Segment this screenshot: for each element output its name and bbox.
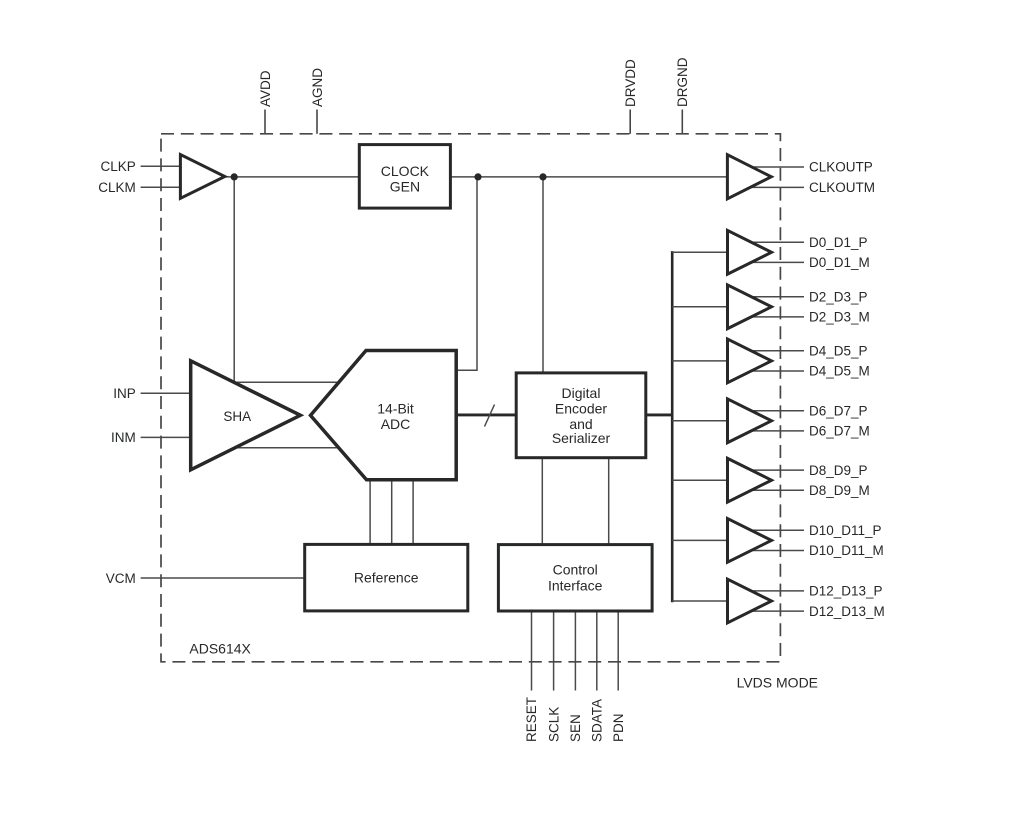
wire encoder to control 2 <box>608 458 610 545</box>
wire D0_D1_M <box>746 261 804 263</box>
svg-text:D6_D7_M: D6_D7_M <box>809 424 870 439</box>
wire CLKOUTP <box>746 166 804 168</box>
svg-text:ADC: ADC <box>381 416 411 432</box>
svg-text:LVDS MODE: LVDS MODE <box>737 675 818 691</box>
wire clock down to ADC <box>456 177 477 370</box>
clock input buffer <box>180 155 224 199</box>
svg-text:Control: Control <box>553 562 598 578</box>
svg-text:AVDD: AVDD <box>258 70 273 107</box>
Control Interface box <box>498 545 652 611</box>
svg-text:D2_D3_M: D2_D3_M <box>809 310 870 325</box>
svg-text:Serializer: Serializer <box>552 430 611 446</box>
svg-text:SCLK: SCLK <box>546 707 561 742</box>
svg-text:DRVDD: DRVDD <box>623 59 638 107</box>
wire D6_D7_P <box>746 410 804 412</box>
wire SHA to ADC upper <box>235 381 341 383</box>
wire bus stub D2_D3 <box>672 306 726 308</box>
junction dot clock to encoder <box>539 173 546 180</box>
svg-text:SEN: SEN <box>568 714 583 742</box>
svg-text:D4_D5_P: D4_D5_P <box>809 344 868 359</box>
LVDS buffer D2_D3 <box>728 285 772 329</box>
wire clock down to SHA <box>233 177 235 382</box>
wire SCLK pin <box>553 611 555 691</box>
wire encoder to LVDS bus <box>646 413 674 416</box>
wire D6_D7_M <box>746 430 804 432</box>
svg-text:SHA: SHA <box>223 409 251 424</box>
svg-text:CLOCK: CLOCK <box>381 163 430 179</box>
svg-text:D2_D3_P: D2_D3_P <box>809 289 868 304</box>
wire D10_D11_M <box>746 550 804 552</box>
svg-text:SDATA: SDATA <box>590 699 605 742</box>
svg-text:ADS614X: ADS614X <box>189 640 251 656</box>
svg-text:D8_D9_P: D8_D9_P <box>809 463 868 478</box>
svg-text:CLKM: CLKM <box>98 180 136 195</box>
wire D2_D3_M <box>746 316 804 318</box>
wire bus stub D6_D7 <box>672 420 726 422</box>
LVDS buffer D0_D1 <box>728 230 772 274</box>
svg-text:D12_D13_P: D12_D13_P <box>809 584 883 599</box>
svg-text:D0_D1_P: D0_D1_P <box>809 235 868 250</box>
wire D8_D9_P <box>746 469 804 471</box>
wire CLKP input <box>141 165 182 167</box>
wire VCM to Reference <box>141 577 305 579</box>
wire D4_D5_M <box>746 370 804 372</box>
wire CLKOUTM <box>746 186 804 188</box>
wire clock buffer to CLOCK GEN <box>225 176 359 178</box>
wire CLOCK GEN to output buffer <box>450 176 726 178</box>
AVDD supply stub <box>264 110 266 134</box>
wire ADC to Reference 1 <box>369 480 371 545</box>
svg-text:PDN: PDN <box>611 713 626 742</box>
LVDS bus vertical <box>671 251 674 602</box>
Digital Encoder and Serializer box <box>516 373 646 458</box>
svg-text:VCM: VCM <box>106 571 136 586</box>
junction dot clock buffer output <box>231 173 238 180</box>
wire D4_D5_P <box>746 350 804 352</box>
AGND supply stub <box>316 110 318 134</box>
LVDS buffer D8_D9 <box>728 458 772 502</box>
wire D12_D13_M <box>746 610 804 612</box>
14-bit ADC block <box>311 351 457 480</box>
svg-text:RESET: RESET <box>524 697 539 742</box>
svg-text:GEN: GEN <box>390 178 420 194</box>
wire RESET pin <box>531 611 533 691</box>
svg-text:D10_D11_M: D10_D11_M <box>809 543 884 558</box>
wire SHA to ADC lower <box>235 447 341 449</box>
LVDS buffer D12_D13 <box>728 579 772 623</box>
svg-text:INM: INM <box>111 430 136 445</box>
svg-text:D0_D1_M: D0_D1_M <box>809 255 870 270</box>
wire PDN pin <box>617 611 619 691</box>
wire CLKM input <box>141 186 182 188</box>
svg-text:Digital: Digital <box>562 385 601 401</box>
SHA amplifier <box>191 361 301 470</box>
svg-text:D10_D11_P: D10_D11_P <box>809 523 882 538</box>
svg-text:D6_D7_P: D6_D7_P <box>809 403 868 418</box>
LVDS buffer D6_D7 <box>728 399 772 443</box>
svg-text:Interface: Interface <box>548 578 603 594</box>
svg-text:DRGND: DRGND <box>675 57 690 107</box>
svg-text:CLKOUTM: CLKOUTM <box>809 180 875 195</box>
svg-text:AGND: AGND <box>310 68 325 107</box>
wire ADC to Reference 3 <box>412 480 414 545</box>
Reference box <box>305 544 468 611</box>
svg-text:D12_D13_M: D12_D13_M <box>809 604 885 619</box>
wire D10_D11_P <box>746 529 804 531</box>
svg-text:14-Bit: 14-Bit <box>377 400 414 416</box>
wire SEN pin <box>574 611 576 691</box>
svg-text:D4_D5_M: D4_D5_M <box>809 364 870 379</box>
LVDS buffer D10_D11 <box>728 519 772 563</box>
wire D8_D9_M <box>746 489 804 491</box>
svg-text:Encoder: Encoder <box>555 401 607 417</box>
DRGND supply stub <box>681 110 683 134</box>
svg-text:CLKP: CLKP <box>101 159 136 174</box>
LVDS buffer D4_D5 <box>728 339 772 383</box>
wire ADC to encoder bus <box>455 413 516 416</box>
wire SDATA pin <box>596 611 598 691</box>
wire D0_D1_P <box>746 241 804 243</box>
wire INP input <box>141 392 192 394</box>
CLOCK GEN box <box>359 145 450 209</box>
bus width slash <box>485 405 495 427</box>
DRVDD supply stub <box>629 110 631 134</box>
svg-text:INP: INP <box>113 386 136 401</box>
wire bus stub D10_D11 <box>672 539 726 541</box>
svg-text:CLKOUTP: CLKOUTP <box>809 160 873 175</box>
svg-text:D8_D9_M: D8_D9_M <box>809 483 870 498</box>
wire bus stub D4_D5 <box>672 360 726 362</box>
junction dot clock to ADC <box>474 173 481 180</box>
wire clock down to encoder <box>542 177 544 373</box>
dashed chip boundary <box>161 134 780 662</box>
CLKOUT buffer <box>727 155 771 199</box>
wire bus stub D12_D13 <box>672 600 726 602</box>
wire ADC to Reference 2 <box>391 480 393 545</box>
svg-text:Reference: Reference <box>354 569 419 585</box>
wire D2_D3_P <box>746 296 804 298</box>
wire bus stub D8_D9 <box>672 479 726 481</box>
wire INM input <box>141 436 192 438</box>
wire encoder to control 1 <box>541 458 543 545</box>
wire D12_D13_P <box>746 590 804 592</box>
wire bus stub D0_D1 <box>672 251 726 253</box>
